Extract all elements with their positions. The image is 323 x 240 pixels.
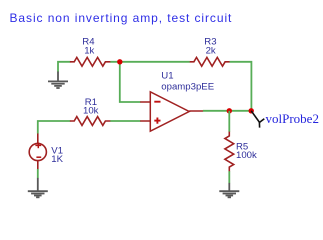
op-amp plus sign	[154, 118, 160, 124]
svg-text:10k: 10k	[83, 106, 99, 117]
wire: R1 right to non-inverting input	[110, 120, 140, 122]
svg-text:1k: 1k	[84, 45, 94, 56]
wire: op-amp output to probe node	[203, 110, 252, 112]
wire: V1 top to R1 left	[38, 121, 71, 134]
op-amp U1	[140, 92, 203, 131]
ground (below R5)	[219, 183, 239, 197]
probe volProbe2	[251, 111, 264, 128]
wire: R4 right to R3 left (feedback top)	[110, 61, 190, 63]
voltage source V1	[29, 133, 46, 169]
wire: output node down to R5	[228, 111, 230, 132]
svg-text:2k: 2k	[206, 45, 216, 56]
wire: R5 bottom to ground	[228, 171, 230, 183]
junction: feedback node	[117, 59, 122, 64]
svg-text:100k: 100k	[236, 150, 257, 161]
resistor R3	[190, 57, 230, 66]
resistor R1	[70, 117, 111, 126]
junction: probe node	[249, 108, 254, 113]
wire: feedback vertical down to inverting input	[120, 62, 141, 102]
svg-text:U1: U1	[161, 70, 173, 81]
ground (left of R4)	[48, 72, 68, 89]
V1 polarity signs	[35, 143, 41, 158]
junction: output node at R5	[227, 108, 232, 113]
wire: V1 bottom to ground	[37, 169, 39, 178]
resistor R5	[225, 132, 234, 172]
svg-text:volProbe2: volProbe2	[266, 111, 319, 126]
svg-text:opamp3pEE: opamp3pEE	[161, 81, 214, 92]
svg-text:1K: 1K	[51, 154, 63, 165]
svg-text:Basic non inverting amp, test: Basic non inverting amp, test circuit	[10, 11, 233, 25]
wire: ground stub to R4 left	[58, 62, 70, 72]
resistor R4	[70, 57, 111, 66]
op-amp minus sign	[154, 101, 160, 103]
wire: R3 right down to output node	[230, 62, 252, 111]
ground (below V1)	[28, 178, 48, 197]
